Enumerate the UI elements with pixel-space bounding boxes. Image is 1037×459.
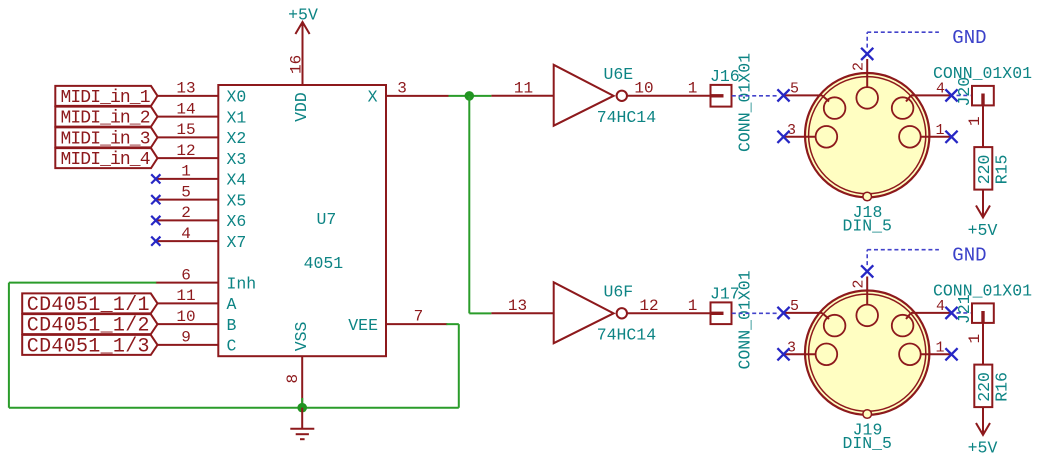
U7 pin 16 (VDD)	[287, 22, 311, 122]
svg-text:GND: GND	[952, 27, 986, 49]
svg-text:A: A	[227, 295, 237, 314]
no-connect J18 pin 1	[945, 131, 957, 143]
no-connect J18 pin 2	[861, 48, 873, 60]
J19 pin 1	[921, 339, 951, 356]
svg-text:1: 1	[181, 163, 191, 181]
svg-text:DIN_5: DIN_5	[842, 217, 892, 236]
svg-text:MIDI_in_3: MIDI_in_3	[61, 129, 150, 149]
svg-text:13: 13	[508, 297, 527, 315]
no-connect J18 pin 5	[777, 89, 789, 101]
no-connect J19 pin 2	[861, 265, 873, 277]
U6F input pin 13	[491, 297, 553, 315]
U7 pin 5 (X5)	[156, 183, 247, 210]
svg-text:GND: GND	[952, 245, 986, 267]
svg-text:X4: X4	[227, 171, 247, 190]
U6E input pin 11	[491, 79, 553, 97]
svg-text:8: 8	[284, 374, 302, 384]
no-connect J19 pin 3	[777, 348, 789, 360]
svg-text:CD4051_1/3: CD4051_1/3	[27, 335, 150, 358]
inverter U6E 74HC14	[554, 65, 657, 127]
svg-text:VDD: VDD	[292, 92, 311, 122]
inverter U6F 74HC14	[554, 282, 657, 344]
svg-text:U6F: U6F	[604, 282, 634, 301]
J19 pin 2	[851, 277, 868, 305]
svg-text:1: 1	[688, 297, 698, 315]
svg-text:X1: X1	[227, 108, 247, 127]
J18 pin 5	[784, 81, 829, 102]
svg-text:2: 2	[851, 62, 868, 71]
svg-text:10: 10	[634, 79, 653, 97]
svg-text:9: 9	[181, 329, 191, 347]
svg-text:MIDI_in_2: MIDI_in_2	[61, 109, 150, 129]
svg-text:1: 1	[935, 339, 944, 356]
no-connect J18 pin 4	[945, 89, 957, 101]
no-connect J18 pin 3	[777, 131, 789, 143]
svg-text:74HC14: 74HC14	[597, 326, 657, 345]
svg-text:5: 5	[790, 81, 799, 98]
svg-text:X2: X2	[227, 129, 247, 148]
svg-text:C: C	[227, 337, 237, 356]
svg-text:DIN_5: DIN_5	[842, 434, 892, 453]
svg-text:74HC14: 74HC14	[597, 108, 657, 127]
power symbol +5V (top)	[288, 6, 318, 35]
dashed link to GND	[866, 250, 868, 265]
U7 pin 4 (X7)	[156, 225, 247, 252]
svg-text:6: 6	[181, 266, 191, 284]
J18 pin 4	[906, 81, 951, 102]
no-connect J19 pin 5	[777, 307, 789, 319]
svg-text:3: 3	[397, 79, 407, 97]
IC U7 4051 body	[218, 85, 386, 356]
svg-text:1: 1	[688, 79, 698, 97]
svg-text:+5V: +5V	[968, 221, 998, 240]
U7 pin 6 (Inh)	[156, 266, 256, 293]
svg-text:+5V: +5V	[288, 6, 318, 25]
U7 pin 10 (B)	[156, 308, 237, 335]
svg-text:7: 7	[414, 308, 424, 326]
svg-text:5: 5	[181, 183, 191, 201]
wire right vertical to VEE	[458, 324, 460, 408]
J21 pin 1 wire to R16	[966, 323, 984, 365]
svg-text:X7: X7	[227, 233, 247, 252]
wire Inh to left bus	[9, 282, 156, 284]
hierarchical label MIDI_in_3	[55, 127, 157, 149]
no-connect flag on U7 pin 4	[151, 237, 160, 246]
no-connect J19 pin 1	[945, 348, 957, 360]
svg-text:4: 4	[936, 298, 945, 315]
DIN-5 connector J18 body	[805, 73, 929, 201]
svg-text:J21: J21	[955, 294, 974, 324]
svg-text:J20: J20	[955, 77, 974, 107]
svg-text:1: 1	[966, 334, 984, 344]
svg-text:VEE: VEE	[348, 316, 378, 335]
J19 pin 3	[784, 339, 816, 356]
U7 pin 2 (X6)	[156, 204, 247, 231]
svg-text:R16: R16	[993, 372, 1012, 402]
no-connect flag on U7 pin 2	[151, 216, 160, 225]
U7 pin 1 (X4)	[156, 163, 247, 190]
svg-text:X0: X0	[227, 88, 247, 107]
dashed link J16 to J18 pin 5	[732, 95, 778, 97]
wire bottom horizontal bus	[9, 407, 459, 409]
svg-text:2: 2	[851, 279, 868, 288]
power symbol +5V (down)	[968, 206, 998, 240]
dashed link J17 to J19 pin 5	[732, 312, 778, 314]
U7 pin 12 (X3)	[156, 142, 247, 169]
connector J17 CONN_01X01	[710, 270, 755, 369]
J18 pin 1	[921, 122, 951, 139]
junction on X output net	[465, 91, 475, 101]
svg-text:X3: X3	[227, 150, 247, 169]
junction at VSS/ground bus	[297, 403, 307, 413]
svg-text:4: 4	[936, 81, 945, 98]
svg-text:Inh: Inh	[227, 274, 257, 293]
U7 pin 13 (X0)	[156, 80, 247, 107]
wire X output to junction	[449, 95, 492, 97]
J20 pin 1 wire to R15	[966, 105, 984, 147]
no-connect J19 pin 4	[945, 307, 957, 319]
svg-text:MIDI_in_1: MIDI_in_1	[61, 88, 150, 108]
svg-text:X6: X6	[227, 212, 247, 231]
svg-text:220: 220	[975, 372, 994, 402]
U6E output pin 10	[627, 79, 711, 97]
svg-text:CONN_01X01: CONN_01X01	[933, 281, 1032, 300]
wire junction down	[468, 96, 470, 314]
wire VSS stub	[301, 398, 303, 408]
svg-text:1: 1	[935, 122, 944, 139]
U7 pin 14 (X1)	[156, 100, 247, 127]
ground symbol	[290, 408, 314, 440]
resistor R16 220	[974, 365, 1011, 408]
no-connect flag on U7 pin 1	[151, 174, 160, 183]
connector J16 CONN_01X01	[710, 53, 755, 152]
U7 pin 9 (C)	[156, 329, 237, 356]
svg-text:12: 12	[176, 142, 195, 160]
svg-text:+5V: +5V	[968, 438, 998, 457]
no-connect flag on U7 pin 5	[151, 195, 160, 204]
svg-text:11: 11	[514, 79, 533, 97]
svg-text:10: 10	[176, 308, 195, 326]
U7 pin 3 (X out)	[368, 79, 449, 106]
svg-text:MIDI_in_4: MIDI_in_4	[61, 150, 150, 170]
DIN-5 connector J19 body	[805, 291, 929, 419]
U6F output pin 12	[627, 297, 711, 315]
svg-text:15: 15	[176, 121, 195, 139]
wire left vertical bus	[8, 283, 10, 408]
resistor R15 220	[974, 147, 1011, 190]
svg-text:4051: 4051	[304, 254, 344, 273]
hierarchical label MIDI_in_1	[55, 86, 157, 108]
U7 pin 11 (A)	[156, 287, 237, 314]
J19 pin 5	[784, 298, 829, 319]
hierarchical label MIDI_in_2	[55, 107, 157, 129]
svg-text:CONN_01X01: CONN_01X01	[736, 53, 755, 152]
hierarchical label CD4051_1/1	[22, 293, 157, 317]
svg-text:220: 220	[975, 155, 994, 185]
svg-text:1: 1	[966, 116, 984, 126]
power symbol +5V (down)	[968, 423, 998, 457]
dashed link J19 pin 4 to J21	[957, 312, 971, 314]
wire R15 to +5V	[982, 190, 984, 217]
dashed link J18 pin 4 to J20	[957, 94, 971, 96]
svg-text:16: 16	[287, 55, 305, 74]
svg-text:VSS: VSS	[292, 321, 311, 351]
connector J21 CONN_01X01	[955, 294, 994, 324]
svg-text:U7: U7	[317, 210, 337, 229]
svg-text:CONN_01X01: CONN_01X01	[933, 64, 1032, 83]
svg-text:4: 4	[181, 225, 191, 243]
svg-text:U6E: U6E	[604, 65, 634, 84]
wire to U6F input	[469, 312, 491, 314]
svg-text:2: 2	[181, 204, 191, 222]
wire VEE stub	[446, 323, 458, 325]
U7 pin 7 (VEE)	[348, 308, 447, 335]
svg-text:12: 12	[639, 297, 658, 315]
J18 pin 3	[784, 122, 816, 139]
svg-text:X5: X5	[227, 191, 247, 210]
svg-text:X: X	[368, 88, 378, 107]
wire R16 to +5V	[982, 407, 984, 434]
U7 pin 15 (X2)	[156, 121, 247, 148]
hierarchical label MIDI_in_4	[55, 148, 157, 170]
svg-text:14: 14	[176, 100, 195, 118]
U7 pin 8 (VSS)	[284, 321, 311, 403]
connector J20 CONN_01X01	[955, 77, 994, 107]
J18 pin 2	[851, 59, 868, 87]
svg-text:11: 11	[176, 287, 195, 305]
svg-text:B: B	[227, 316, 237, 335]
J19 pin 4	[906, 298, 951, 319]
svg-text:13: 13	[176, 80, 195, 98]
svg-text:CONN_01X01: CONN_01X01	[736, 270, 755, 369]
svg-text:R15: R15	[993, 155, 1012, 185]
dashed link to GND	[866, 32, 868, 47]
hierarchical label CD4051_1/2	[22, 314, 157, 338]
svg-text:5: 5	[790, 298, 799, 315]
hierarchical label CD4051_1/3	[22, 335, 157, 359]
